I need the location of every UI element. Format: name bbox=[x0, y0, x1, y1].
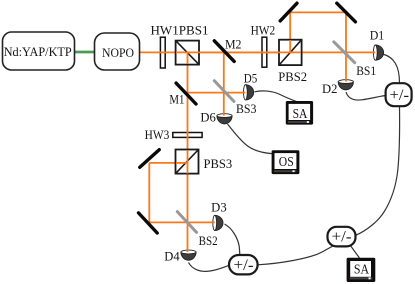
beam across HW1 bbox=[159, 51, 167, 53]
beam tip into D6 bbox=[223, 113, 225, 116]
svg-text:HW2: HW2 bbox=[251, 24, 276, 38]
beam PBS3 left to mirror bbox=[149, 162, 187, 164]
wire D6 to OS bbox=[228, 124, 272, 154]
top beam between mirrors bbox=[290, 11, 346, 13]
polarizing beamsplitter PBS3 bbox=[176, 150, 199, 174]
wire N3 to N2 bbox=[258, 245, 334, 264]
beam tip into D2 bbox=[345, 79, 347, 82]
beam across HW2 bbox=[261, 51, 269, 53]
svg-text:+/-: +/- bbox=[234, 257, 254, 274]
svg-text:+/-: +/- bbox=[390, 87, 410, 104]
half-wave plate HW3 bbox=[173, 133, 202, 138]
mirror M1 bbox=[176, 83, 196, 104]
svg-text:D6: D6 bbox=[200, 110, 215, 124]
wire D1 to subtractor N1 bbox=[383, 54, 400, 83]
wire D2 to subtractor N1 bbox=[346, 92, 386, 100]
mirror top-left bbox=[280, 3, 297, 21]
mirror M2 bbox=[214, 41, 234, 62]
vertical beam PBS1 down to D4 bbox=[187, 52, 189, 253]
beam left mirror down bbox=[148, 163, 150, 223]
svg-text:+/-: +/- bbox=[332, 229, 352, 246]
half-wave plate HW1 bbox=[160, 37, 165, 68]
polarizing beamsplitter PBS1 bbox=[176, 41, 199, 65]
svg-text:D4: D4 bbox=[164, 249, 180, 263]
beamsplitter BS2 bbox=[177, 212, 196, 233]
beam bottom mirror to D3 bbox=[149, 221, 216, 223]
svg-text:BS3: BS3 bbox=[236, 102, 257, 116]
NOPO bbox=[95, 33, 140, 70]
beamsplitter BS3 bbox=[214, 81, 234, 102]
green pump beam laser to NOPO bbox=[74, 51, 95, 54]
beam across HW3 bbox=[187, 131, 189, 140]
main orange beam NOPO to D1 bbox=[140, 51, 377, 53]
svg-text:SA: SA bbox=[293, 107, 309, 122]
wire N1 to N2 bbox=[356, 106, 400, 235]
mirror bottom-left bbox=[139, 213, 158, 233]
svg-text:M1: M1 bbox=[169, 93, 184, 107]
svg-text:BS1: BS1 bbox=[356, 64, 376, 78]
beam tip into D1 bbox=[373, 51, 376, 53]
beam M2 down to D6 bbox=[223, 52, 225, 117]
svg-text:OS: OS bbox=[279, 154, 294, 169]
detector D2 bbox=[338, 80, 353, 90]
detector D4 bbox=[181, 250, 196, 260]
wire N2 to SA2 bbox=[351, 246, 360, 258]
svg-text:NOPO: NOPO bbox=[102, 45, 134, 60]
svg-text:D3: D3 bbox=[211, 201, 227, 215]
spectrum analyzer SA2 bbox=[347, 258, 376, 282]
beam tip into D3 bbox=[212, 221, 215, 223]
svg-text:HW3: HW3 bbox=[145, 128, 170, 142]
laser Nd:YAP/KTP bbox=[3, 32, 75, 70]
detector D5 bbox=[244, 85, 254, 100]
polarizing beamsplitter PBS2 bbox=[279, 40, 302, 65]
subtractor N3 +/- bbox=[229, 255, 258, 274]
svg-text:D2: D2 bbox=[322, 82, 337, 96]
redraw beams over PBS interiors bbox=[176, 51, 301, 53]
oscilloscope OS bbox=[272, 150, 300, 174]
svg-text:BS2: BS2 bbox=[199, 234, 218, 248]
svg-text:PBS3: PBS3 bbox=[204, 157, 233, 171]
svg-text:D1: D1 bbox=[370, 29, 385, 43]
svg-text:M2: M2 bbox=[225, 38, 242, 52]
wire D3 to N3 bbox=[225, 224, 240, 255]
svg-text:SA: SA bbox=[354, 262, 370, 277]
mirror left middle bbox=[140, 150, 159, 168]
subtractor N1 +/- bbox=[386, 83, 412, 106]
beamsplitter BS1 bbox=[334, 42, 355, 63]
svg-text:Nd:YAP/KTP: Nd:YAP/KTP bbox=[4, 45, 72, 59]
detector D3 bbox=[213, 215, 223, 230]
beam PBS2 up bbox=[289, 12, 291, 52]
mirror top-right bbox=[337, 3, 356, 22]
svg-text:HW1PBS1: HW1PBS1 bbox=[151, 24, 209, 38]
wire D5 to SA1 bbox=[255, 91, 298, 102]
svg-text:D5: D5 bbox=[244, 71, 257, 85]
detector D1 bbox=[373, 45, 383, 60]
half-wave plate HW2 bbox=[262, 37, 267, 67]
detector D6 bbox=[217, 114, 232, 124]
svg-text:PBS2: PBS2 bbox=[278, 70, 307, 84]
subtractor N2 +/- bbox=[328, 227, 356, 247]
beam M1 to D5 bbox=[188, 92, 247, 94]
beam mirror down through BS1 to D2 bbox=[345, 12, 347, 83]
beam tip into D5 bbox=[243, 92, 246, 94]
wire D4 to N3 bbox=[189, 263, 230, 272]
spectrum analyzer SA1 bbox=[286, 101, 313, 125]
beam tip into D4 bbox=[187, 249, 189, 252]
